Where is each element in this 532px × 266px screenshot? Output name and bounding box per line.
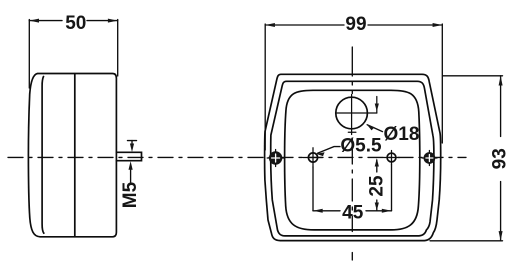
M5 stud (side view) <box>116 152 141 160</box>
svg-text:50: 50 <box>65 13 86 34</box>
dimension 93: dim line <box>500 76 502 137</box>
right hole Ø5.5 <box>387 153 396 162</box>
leader for Ø5.5 <box>318 147 341 154</box>
svg-text:25: 25 <box>367 175 388 197</box>
left hole Ø5.5 <box>308 153 317 162</box>
svg-text:Ø5.5: Ø5.5 <box>340 136 382 157</box>
dimension 50: dim line <box>29 20 62 22</box>
lamp body side view outline <box>28 74 116 237</box>
dimension 93: extension lines <box>443 75 503 77</box>
stud pointer arrow (below stud) <box>130 168 132 182</box>
dimension 50: extension lines <box>28 20 30 89</box>
svg-text:Ø18: Ø18 <box>384 124 420 145</box>
right screw <box>422 151 437 166</box>
svg-text:99: 99 <box>345 14 366 35</box>
dimension 99: arrows <box>265 23 275 27</box>
jog line up from center line <box>376 97 378 114</box>
svg-text:93: 93 <box>489 148 510 169</box>
dimension 93: arrows <box>499 76 503 86</box>
rear view inner rim outline <box>271 81 434 236</box>
dimension 45: dim line <box>313 210 340 212</box>
svg-text:M5: M5 <box>120 181 141 208</box>
horizontal centerline (both views) <box>8 156 466 158</box>
dimension 45: extension lines from holes <box>312 167 314 211</box>
circle center cross <box>348 95 356 135</box>
dimension 25 (vertical, rotated text) <box>376 160 378 172</box>
dimension 99: dim line <box>265 24 344 26</box>
body/lens divider line (side view) <box>74 74 76 237</box>
dimension 45: arrows <box>313 209 323 213</box>
dimension 99: extension lines <box>264 24 266 150</box>
rear view inner lens outline (large corner radius) <box>285 90 420 230</box>
stud pointer arrow (above stud) <box>128 140 137 142</box>
lens edge line (side view) <box>42 77 44 234</box>
big lamp hole circle Ø18 <box>336 97 368 129</box>
vertical centerline (rear view) <box>351 47 353 260</box>
dimension 50: arrows <box>29 19 39 23</box>
svg-text:45: 45 <box>342 203 364 224</box>
rear view outer outline <box>265 74 441 240</box>
left screw <box>267 150 284 167</box>
leader for Ø18 <box>367 125 382 132</box>
